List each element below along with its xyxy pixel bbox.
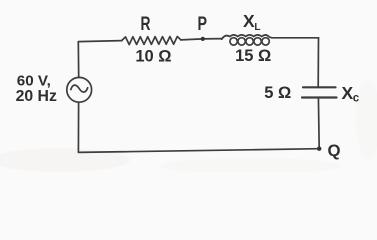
svg-text:R: R: [141, 14, 151, 35]
scan background tint: [0, 0, 377, 172]
capacitor C1 top plate: [303, 86, 336, 88]
wire: top-left segment and left riser to source: [78, 41, 121, 78]
inductor L1 loops: [230, 38, 237, 45]
svg-text:Q: Q: [327, 141, 340, 160]
capacitor C1 bottom plate: [302, 96, 337, 98]
svg-text:20 Hz: 20 Hz: [16, 88, 57, 105]
wire: resistor to node P: [181, 39, 203, 40]
svg-text:10 Ω: 10 Ω: [135, 47, 171, 65]
node P junction dot: [201, 37, 205, 41]
svg-text:15 Ω: 15 Ω: [235, 47, 271, 65]
wire: capacitor to node Q: [317, 98, 320, 149]
AC source V1 sine wave: [71, 85, 88, 92]
node Q junction dot: [317, 147, 321, 151]
svg-text:P: P: [198, 14, 208, 35]
wire: node P to inductor: [203, 38, 223, 40]
resistor R1 zigzag: [122, 37, 181, 45]
wire: inductor to top-right corner: [272, 37, 319, 39]
wire: right riser to capacitor: [317, 38, 319, 87]
svg-text:5 Ω: 5 Ω: [264, 84, 291, 102]
AC source V1 circle: [67, 77, 92, 102]
wire: bottom return: [78, 102, 319, 152]
